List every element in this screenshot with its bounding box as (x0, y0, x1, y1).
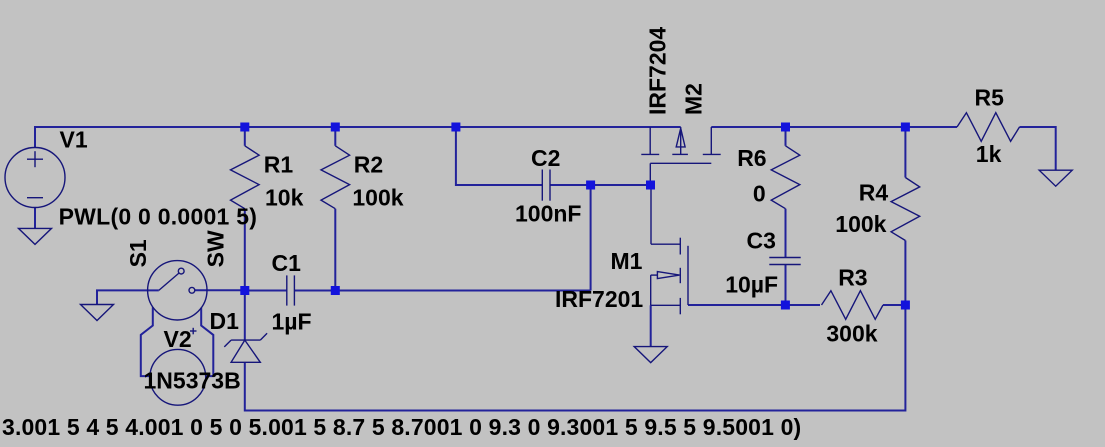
wire M1 gate row (688, 304, 785, 306)
svg-text:100k: 100k (835, 211, 886, 237)
wire top rail right (M2 to R5) (711, 126, 957, 128)
node top C2 branch (451, 123, 460, 132)
svg-text:R5: R5 (975, 85, 1005, 111)
capacitor C2 (542, 170, 550, 201)
svg-text:1k: 1k (976, 141, 1002, 167)
NMOS transistor M1 (651, 185, 688, 314)
wire C3 bottom (785, 265, 787, 306)
svg-text:S1: S1 (125, 239, 151, 267)
wire R3 left stub (785, 304, 820, 306)
svg-text:10k: 10k (265, 185, 304, 211)
svg-text:C3: C3 (747, 228, 776, 254)
wire R1 column (244, 127, 246, 146)
wire V1 bottom to ground (34, 208, 36, 229)
node top R6 (781, 123, 790, 132)
wire C1 row left (245, 290, 287, 292)
svg-text:M2: M2 (680, 83, 706, 115)
svg-text:D1: D1 (210, 308, 240, 334)
node M2 gate (646, 181, 655, 190)
ground left of switch (81, 305, 114, 321)
voltage source V1 (5, 148, 65, 208)
wire R5 right to ground (1020, 127, 1056, 170)
wire C2 right to node (550, 184, 651, 186)
svg-text:C2: C2 (531, 145, 560, 171)
resistor R5 (957, 113, 1020, 142)
svg-text:1µF: 1µF (272, 309, 312, 335)
wire R2 column (334, 127, 336, 146)
svg-text:1N5373B: 1N5373B (144, 367, 241, 393)
wire D1 top (244, 291, 246, 341)
svg-text:0: 0 (753, 181, 766, 207)
ground below M1 (634, 347, 667, 363)
resistor R2 (321, 146, 350, 209)
node R3 right (901, 301, 910, 310)
svg-text:PWL(0 0 0.0001 5): PWL(0 0 0.0001 5) (59, 204, 258, 230)
svg-text:IRF7204: IRF7204 (645, 27, 671, 115)
node top R1 (240, 123, 249, 132)
svg-text:R1: R1 (264, 152, 294, 178)
ground right of R5 (1039, 170, 1072, 186)
wire R2 bottom (334, 209, 336, 291)
svg-text:100k: 100k (352, 185, 403, 211)
svg-text:C1: C1 (272, 250, 302, 276)
svg-text:V1: V1 (60, 127, 88, 153)
capacitor C1 (287, 275, 295, 305)
svg-text:R2: R2 (354, 152, 383, 178)
wire C1 row right (294, 290, 590, 292)
wire R1 bottom (244, 209, 246, 291)
capacitor C3 (769, 258, 800, 265)
wire R4 bottom stub (904, 241, 906, 306)
wire D1 bottom bus loop (245, 305, 906, 411)
voltage source V2 (150, 328, 206, 405)
resistor R1 (231, 146, 260, 209)
wire switch left to ground (97, 290, 159, 304)
svg-text:R3: R3 (838, 265, 867, 291)
resistor R6 (771, 146, 800, 209)
wire R6 to C3 (785, 209, 787, 258)
wire R3 right stub (883, 304, 905, 306)
svg-text:R4: R4 (859, 180, 889, 206)
svg-text:300k: 300k (826, 321, 877, 347)
svg-text:V2: V2 (164, 326, 192, 352)
wire M1 source to ground (650, 305, 652, 346)
wire R4 top stub (904, 127, 906, 178)
resistor R3 (822, 291, 884, 320)
svg-text:10µF: 10µF (725, 272, 778, 298)
wire V2 left loop (141, 307, 153, 376)
svg-text:3.001 5 4 5 4.001 0 5 0 5.001: 3.001 5 4 5 4.001 0 5 0 5.001 5 8.7 5 8.… (2, 414, 801, 440)
wire top rail left (V1 to M2) (35, 127, 681, 148)
node top R2 (331, 123, 340, 132)
node C1 left (240, 286, 249, 295)
node C2 out (586, 181, 595, 190)
svg-text:R6: R6 (737, 145, 766, 171)
PMOS transistor M2 (641, 127, 720, 185)
svg-text:100nF: 100nF (515, 201, 581, 227)
wire C2 left branch (456, 127, 542, 185)
switch S1 (148, 261, 207, 320)
node C1 right (331, 286, 340, 295)
wire switch right to node (195, 289, 245, 291)
svg-text:M1: M1 (611, 248, 643, 274)
resistor R4 (891, 178, 920, 241)
wire V2 right loop (201, 308, 213, 376)
wire R6 top stub (785, 127, 787, 146)
node C3 bottom (781, 301, 790, 310)
wire riser C1 row to C2 row (590, 185, 592, 291)
zener diode D1 (224, 333, 267, 362)
ground below V1 (19, 228, 52, 244)
node top R4 (901, 123, 910, 132)
svg-text:SW: SW (202, 230, 228, 267)
svg-text:IRF7201: IRF7201 (555, 286, 643, 312)
